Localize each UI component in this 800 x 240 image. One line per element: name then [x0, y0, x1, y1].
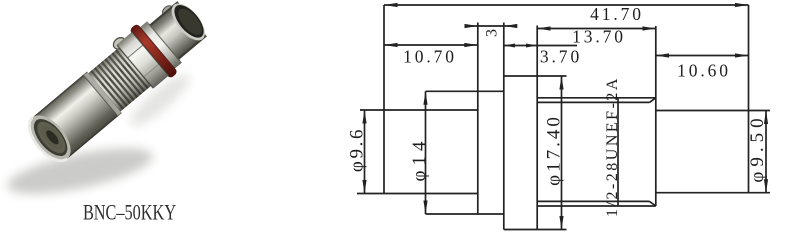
dimension 10.70 [384, 43, 478, 67]
svg-text:1/2-28UNEF-2A: 1/2-28UNEF-2A [604, 76, 621, 217]
red washer [129, 23, 178, 79]
svg-text:φ14: φ14 [409, 137, 430, 182]
dimension 3 flange thickness [465, 24, 518, 37]
svg-text:13.70: 13.70 [572, 27, 626, 47]
bayonet stud far [160, 4, 175, 19]
dimension phi 17.40 flange diameter [544, 76, 565, 230]
svg-text:φ9.50: φ9.50 [747, 113, 768, 182]
front face rim and opening [22, 108, 79, 168]
dimension phi 9.50 rear barrel diameter [747, 111, 768, 193]
photo: BNC-50KKY connector body (rotated assembly) [18, 0, 218, 172]
outline: flange washer phi 17.40 [504, 23, 567, 230]
svg-text:φ9.6: φ9.6 [347, 127, 368, 172]
svg-text:10.60: 10.60 [677, 61, 731, 81]
dimension phi 9.6 front barrel diameter [347, 110, 368, 194]
rear tube end opening [166, 0, 212, 46]
flange disc [140, 21, 182, 69]
dimension phi 14 hex diameter [409, 91, 430, 214]
hex nut [117, 32, 169, 89]
dimension 10.60 [656, 53, 749, 80]
rear tube [148, 1, 207, 61]
front barrel [33, 72, 122, 159]
technical drawing of BNC-50KKY connector [357, 5, 770, 230]
junction lines [117, 45, 153, 88]
svg-text:10.70: 10.70 [403, 47, 457, 67]
dimension 41.70 overall length [384, 3, 749, 24]
outline: rear barrel phi 9.50 [656, 5, 770, 193]
outline: front barrel phi 9.6 [357, 5, 478, 194]
svg-text:3.70: 3.70 [540, 47, 582, 67]
outline: collar divider [477, 23, 479, 215]
outline: hex body phi 14 [426, 91, 504, 214]
svg-text:BNC–50KKY: BNC–50KKY [83, 201, 176, 225]
threaded section [88, 47, 152, 112]
outline: threaded section [537, 26, 656, 206]
dimension 3.70 [504, 44, 582, 67]
svg-text:φ17.40: φ17.40 [544, 114, 565, 186]
bayonet stud near [111, 35, 127, 51]
photo: soft shadow under connector [4, 68, 195, 203]
svg-text:41.70: 41.70 [590, 4, 644, 24]
dimension 13.70 thread length [537, 26, 656, 46]
svg-text:3: 3 [484, 29, 501, 37]
